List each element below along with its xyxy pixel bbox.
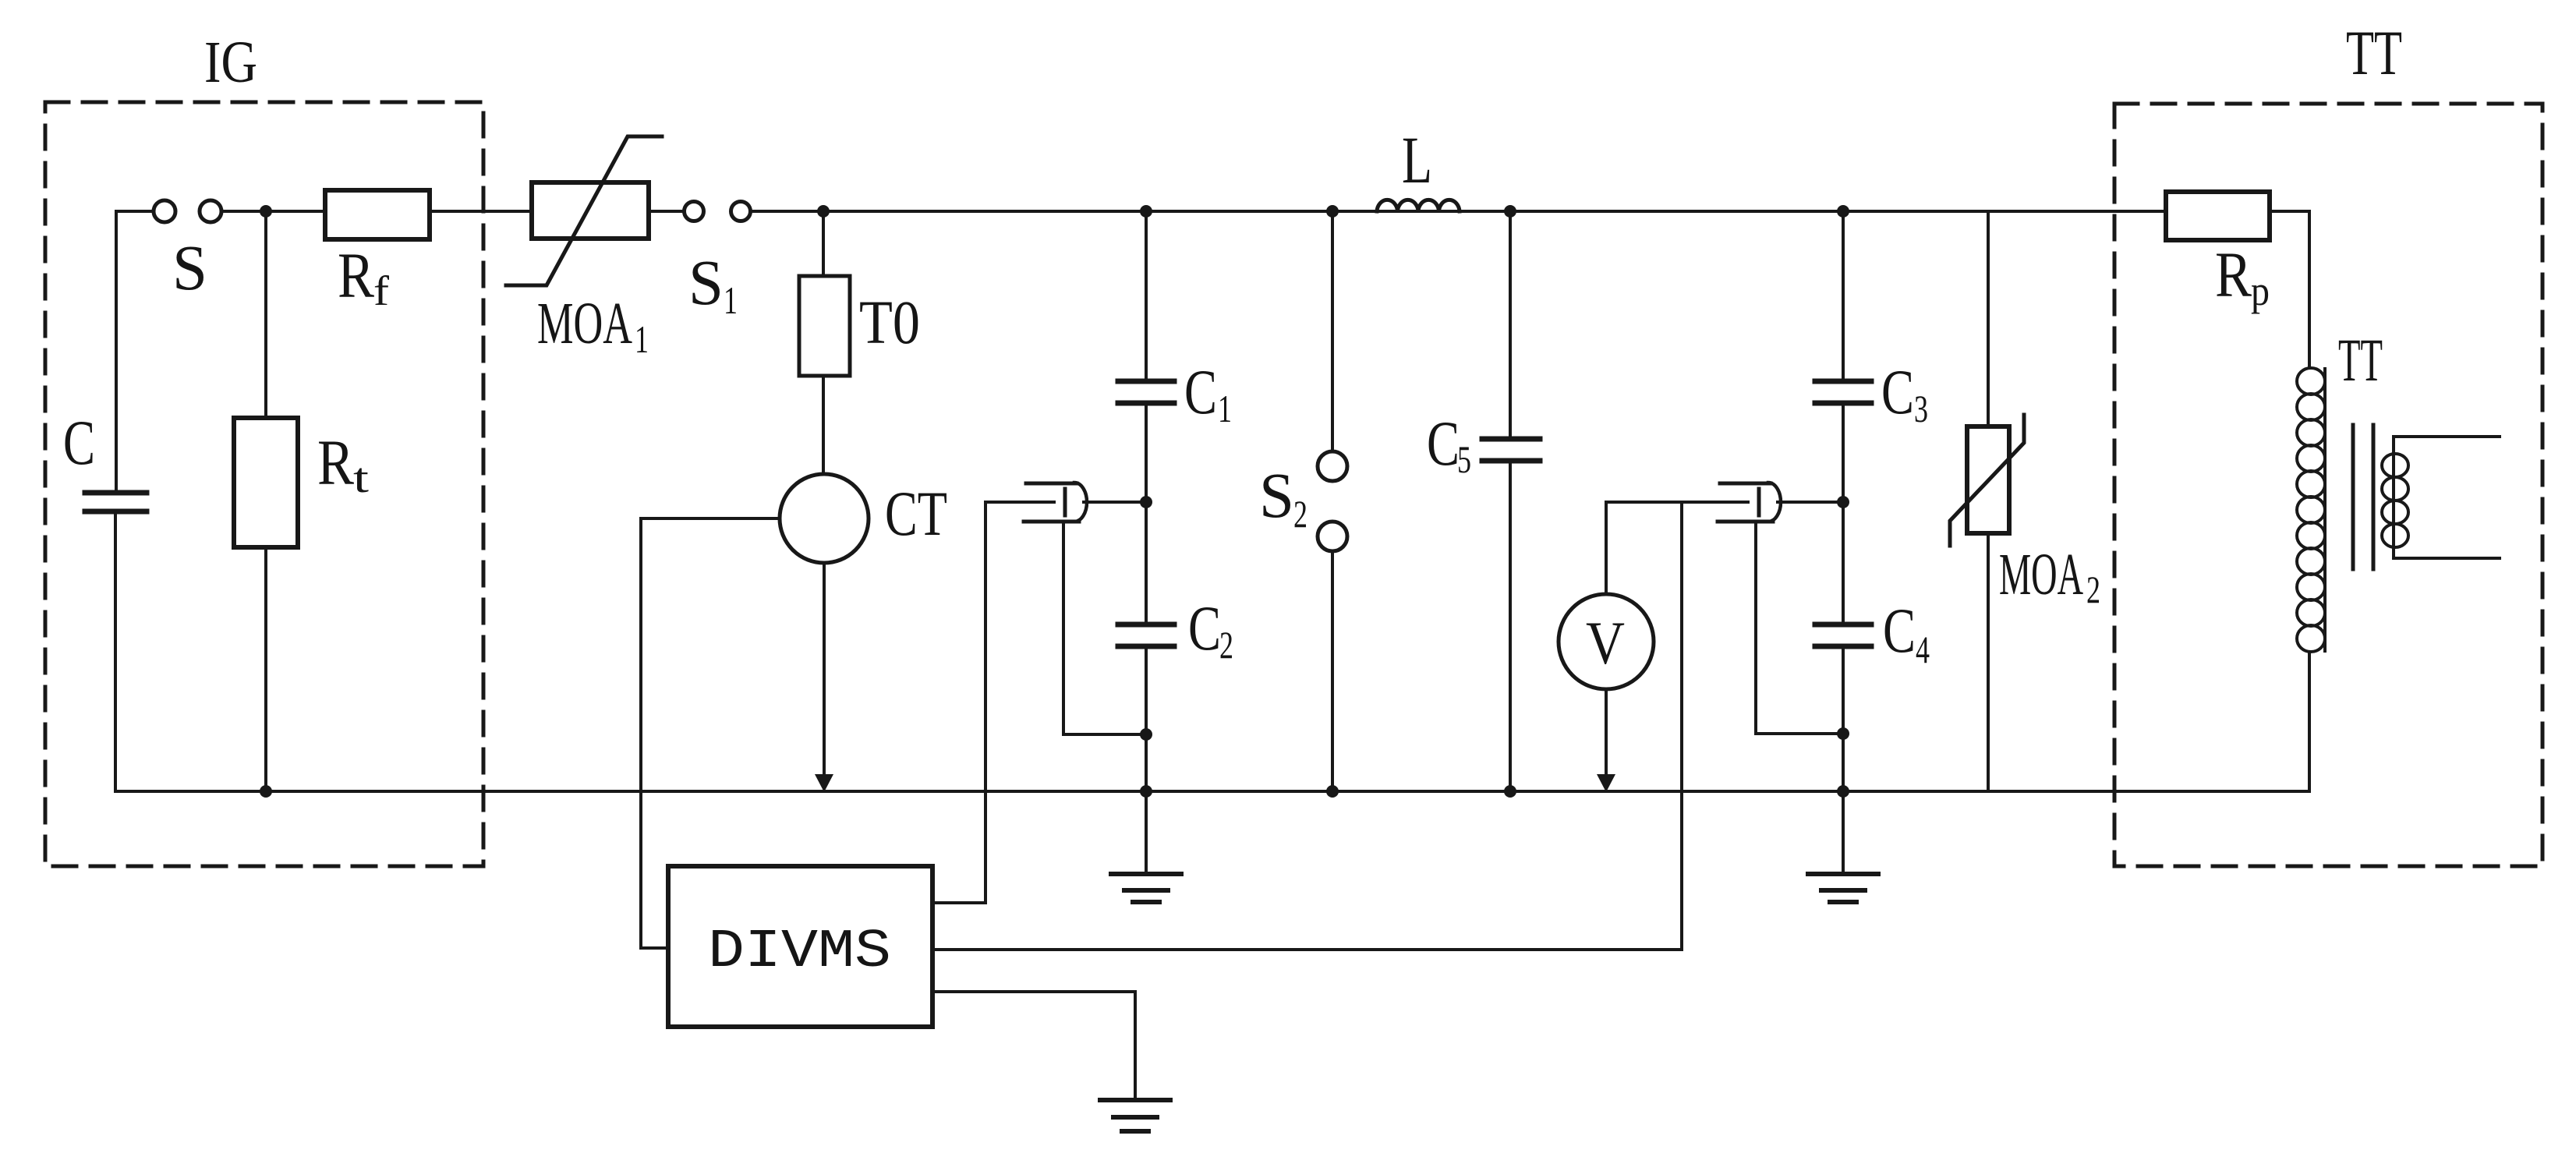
- svg-text:2: 2: [1219, 623, 1233, 667]
- capacitor C2: [1118, 622, 1174, 628]
- wire: Rt branch vertical: [264, 211, 267, 418]
- wire: bottom bus: [115, 790, 2309, 793]
- wire: voltmeter branch: [1605, 502, 1608, 594]
- svg-text:TT: TT: [2346, 17, 2402, 88]
- wire: MOA2 branch: [1987, 211, 1990, 426]
- capacitor C3: [1815, 379, 1871, 384]
- junction Rt bottom: [260, 785, 272, 798]
- junction coax1 shield node: [1140, 728, 1152, 741]
- junction T0 top: [817, 205, 830, 218]
- svg-text:5: 5: [1457, 437, 1471, 481]
- junction S2 top: [1326, 205, 1339, 218]
- wire: S to Rf: [221, 210, 325, 213]
- secondary leads: [2394, 435, 2500, 438]
- capacitor C1: [1118, 379, 1174, 384]
- svg-text:S: S: [172, 232, 207, 303]
- ground: [1100, 1100, 1170, 1131]
- svg-text:C: C: [1184, 356, 1217, 427]
- junction C1 top: [1140, 205, 1152, 218]
- junction C4 ground bottom: [1837, 785, 1849, 798]
- capacitor C4: [1815, 622, 1871, 628]
- wire: C3/C4 branch: [1842, 211, 1845, 381]
- wire: main bus S1 to inductor L: [751, 210, 1377, 213]
- wire: C to bottom bus corner: [114, 511, 117, 791]
- svg-text:1: 1: [724, 278, 738, 322]
- resistor Rp: [2166, 192, 2270, 240]
- junction coax1 tap node: [1140, 496, 1152, 508]
- wire: coax1 shield to C2 bottom: [1063, 522, 1146, 734]
- coax probe 2: [1720, 482, 1771, 486]
- current transformer CT: [780, 474, 869, 563]
- wire: CT to bottom bus with arrow: [823, 563, 826, 778]
- wire: DIVMS middle output up to coax2: [932, 502, 1682, 950]
- switch S1: [685, 202, 704, 221]
- svg-text:S: S: [1259, 459, 1294, 531]
- wire: C5 branch: [1509, 211, 1512, 439]
- wire: coax1 center to DIVMS top output: [932, 502, 985, 903]
- TT dashed box: [2114, 104, 2542, 866]
- wire: T0 to CT: [822, 376, 825, 474]
- svg-text:L: L: [1402, 122, 1432, 197]
- svg-text:V: V: [1586, 609, 1625, 677]
- ground: [1808, 874, 1878, 902]
- arrowhead V lead: [1597, 774, 1615, 792]
- svg-text:C: C: [1883, 595, 1916, 666]
- capacitor C5: [1482, 437, 1540, 442]
- wire: DIVMS bottom output to ground: [932, 992, 1135, 1100]
- svg-text:3: 3: [1914, 387, 1928, 430]
- varistor MOA1: [532, 182, 649, 239]
- svg-text:2: 2: [2086, 568, 2100, 611]
- wire: coax2 shield to C4 bottom: [1756, 522, 1843, 734]
- svg-text:R: R: [2215, 239, 2252, 310]
- junction C5 top: [1504, 205, 1516, 218]
- varistor MOA2: [1967, 426, 2009, 533]
- svg-text:C: C: [1881, 356, 1914, 427]
- svg-text:f: f: [373, 267, 389, 314]
- wire: Rf to MOA1: [430, 210, 532, 213]
- svg-text:MOA: MOA: [537, 291, 632, 356]
- wire: main bus L to Rp: [1460, 210, 2166, 213]
- arrowhead CT lead: [815, 774, 833, 792]
- junction C2 ground bottom: [1140, 785, 1152, 798]
- svg-text:R: R: [338, 239, 375, 311]
- IG dashed box: [45, 102, 483, 866]
- svg-text:IG: IG: [204, 30, 257, 95]
- svg-text:DIVMS: DIVMS: [708, 922, 891, 983]
- voltmeter V: [1559, 594, 1654, 689]
- junction C3 top: [1837, 205, 1849, 218]
- svg-text:C: C: [1188, 593, 1221, 663]
- svg-text:TT: TT: [2338, 326, 2383, 394]
- wire: CT output to DIVMS: [641, 518, 780, 948]
- inductor L: [1377, 210, 1460, 213]
- resistor Rf: [325, 190, 430, 239]
- svg-text:p: p: [2251, 267, 2270, 314]
- wire: [1145, 403, 1148, 624]
- svg-text:C: C: [1427, 408, 1460, 479]
- ground: [1111, 874, 1181, 902]
- wire: S2 branch: [1331, 211, 1334, 451]
- capacitor C: [85, 490, 147, 496]
- switch S2: [1318, 451, 1347, 481]
- primary coil loops: [2297, 368, 2325, 394]
- svg-text:C: C: [63, 407, 95, 478]
- svg-text:1: 1: [1218, 387, 1232, 430]
- resistor T0: [799, 276, 850, 376]
- svg-text:1: 1: [635, 317, 649, 361]
- junction coax2 tap node: [1837, 496, 1849, 508]
- switch S: [154, 200, 175, 222]
- svg-text:CT: CT: [885, 478, 947, 549]
- transformer core: [2351, 425, 2355, 569]
- wire: Rt to bottom bus: [264, 547, 267, 791]
- wire: primary bottom lead: [2308, 652, 2311, 791]
- svg-text:t: t: [353, 455, 369, 501]
- wire: C branch top corner to switch S: [116, 211, 154, 493]
- svg-text:MOA: MOA: [1999, 542, 2083, 607]
- junction S2 bottom: [1326, 785, 1339, 798]
- coax probe 1: [1026, 482, 1077, 486]
- transformer TT primary lead and coil: [2323, 369, 2327, 651]
- junction Rt top: [260, 205, 272, 218]
- wire: C1/C2 branch: [1145, 211, 1148, 381]
- svg-text:R: R: [317, 426, 355, 498]
- svg-text:S: S: [688, 246, 724, 318]
- wire: T0 branch from main bus: [822, 211, 825, 276]
- svg-text:4: 4: [1916, 628, 1930, 671]
- secondary coil: [2392, 437, 2395, 558]
- junction coax2 shield node: [1837, 727, 1849, 740]
- resistor Rt: [234, 418, 298, 547]
- DIVMS box: [668, 866, 932, 1027]
- svg-text:2: 2: [1293, 492, 1307, 536]
- svg-text:T0: T0: [859, 289, 920, 357]
- wire: Rp to transformer primary: [2270, 211, 2309, 367]
- junction C5 bottom: [1504, 785, 1516, 798]
- wire: C2 to ground: [1145, 646, 1148, 874]
- wire: MOA1 to S1: [649, 210, 684, 213]
